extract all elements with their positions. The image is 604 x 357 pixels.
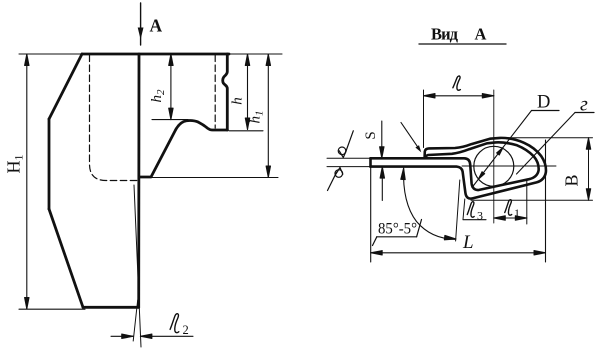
svg-text:S: S: [363, 131, 379, 139]
dimension l1: [526, 180, 528, 224]
svg-text:h2: h2: [149, 89, 167, 103]
horizontal centerline: [462, 165, 556, 167]
bottom edge: [83, 306, 139, 309]
inner contour: [371, 142, 539, 190]
part outline: strip + rolled eye, outer contour: [371, 138, 546, 199]
svg-text:h: h: [230, 97, 246, 105]
svg-text:h1: h1: [248, 111, 266, 124]
svg-text:L: L: [462, 232, 474, 253]
svg-text:А: А: [475, 25, 487, 44]
dimension l2: [111, 335, 193, 337]
dimension l3: [463, 199, 465, 220]
leader to end bend: [401, 123, 420, 151]
roughness symbol top: [338, 131, 353, 158]
vertical centerline / extension: [493, 90, 495, 223]
dimension h2: [152, 54, 188, 120]
hidden dashed line (right inner wall): [214, 55, 216, 128]
draft line thin (slanted side extension): [134, 185, 141, 347]
svg-text:D: D: [537, 93, 550, 113]
svg-text:1: 1: [514, 206, 520, 220]
step bottom edge and hump: [139, 120, 227, 177]
inner circle (diameter D): [474, 146, 514, 186]
strip edge extensions to the left: [327, 157, 370, 159]
label l: [453, 76, 461, 90]
dimension l (top): [424, 95, 494, 97]
svg-text:3: 3: [477, 209, 483, 223]
dimension H1: [19, 54, 85, 309]
svg-text:85°-5°: 85°-5°: [378, 221, 417, 238]
hidden dashed contour (inner wall): [90, 55, 139, 181]
svg-text:H1: H1: [4, 155, 26, 174]
draft line thin short: [133, 300, 138, 341]
roughness symbol bottom: [328, 168, 343, 191]
top edge thin extension line: [19, 53, 282, 55]
strip left end cap: [369, 158, 372, 166]
top edge: [82, 53, 229, 56]
dimension h: [229, 54, 263, 131]
lower-left slant edge: [49, 209, 83, 307]
dimension L: [371, 140, 546, 262]
svg-text:А: А: [150, 16, 163, 36]
upper-left chamfer edge: [49, 54, 82, 119]
right vertical edge with notch: [223, 54, 228, 130]
neck edge extension (slanted): [456, 180, 460, 241]
svg-text:В: В: [562, 174, 582, 186]
dimension B: [471, 138, 593, 201]
svg-text:2: 2: [183, 323, 189, 337]
view arrow A (section direction): [138, 3, 144, 45]
central vertical edge: [137, 54, 140, 307]
angle 85-5 arc with arrows: [403, 168, 455, 239]
dimension h1: [151, 54, 278, 178]
svg-text:Вид: Вид: [431, 25, 459, 44]
dimension S: [381, 121, 384, 201]
left vertical edge: [48, 119, 51, 209]
part outline left view: [49, 54, 229, 307]
